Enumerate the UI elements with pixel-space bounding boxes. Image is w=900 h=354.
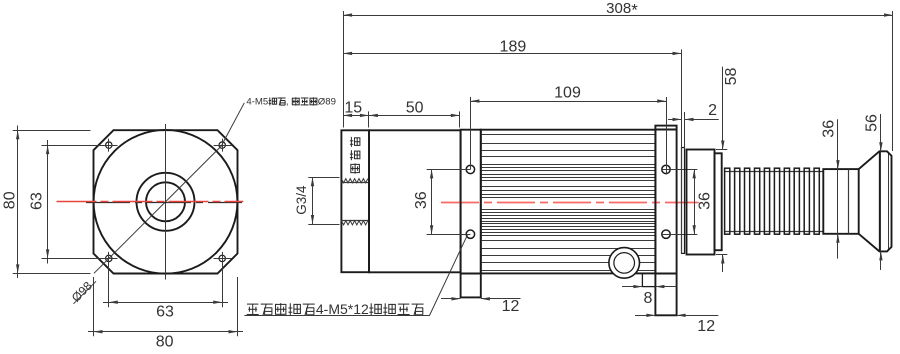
svg-text:80: 80 [2, 191, 19, 209]
svg-text:12: 12 [502, 298, 520, 315]
svg-text:56: 56 [863, 114, 880, 132]
svg-text:36: 36 [413, 191, 430, 209]
svg-text:189: 189 [500, 38, 527, 55]
svg-text:50: 50 [406, 99, 424, 116]
svg-text:36: 36 [820, 120, 837, 138]
svg-text:58: 58 [723, 68, 740, 86]
svg-text:109: 109 [554, 85, 581, 102]
svg-text:4-M5*12: 4-M5*12 [316, 301, 369, 317]
svg-text:,: , [286, 97, 289, 108]
svg-text:15: 15 [344, 99, 362, 116]
svg-text:Ø89: Ø89 [318, 97, 336, 108]
svg-text:63: 63 [156, 303, 174, 320]
svg-text:12: 12 [697, 318, 715, 335]
svg-text:308*: 308* [606, 0, 638, 20]
svg-text:8: 8 [644, 290, 653, 307]
svg-text:63: 63 [28, 192, 45, 210]
svg-text:36: 36 [696, 192, 713, 210]
svg-text:2: 2 [708, 102, 717, 119]
svg-text:G3/4: G3/4 [294, 185, 309, 215]
svg-text:80: 80 [156, 333, 174, 349]
svg-text:4-M5: 4-M5 [246, 97, 268, 108]
